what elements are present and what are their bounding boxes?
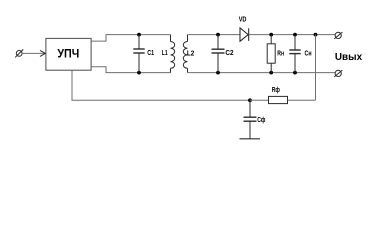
node C2 top [216, 33, 220, 37]
svg-text:УПЧ: УПЧ [57, 47, 79, 61]
svg-text:C1: C1 [147, 50, 154, 57]
svg-text:Uвых: Uвых [335, 51, 362, 63]
wire secondary top rail [188, 34, 241, 36]
node C1 top [137, 33, 141, 37]
node Cf junction [248, 98, 252, 102]
block U1 УПЧ [46, 38, 91, 70]
node C1 bottom [137, 71, 141, 75]
wire box top stub to tank [91, 35, 170, 42]
wire block bottom pin and lower rail [72, 70, 250, 100]
wire vertical feed to Rf [315, 35, 317, 101]
wire secondary bottom rail to output [188, 72, 336, 74]
node Rn top [269, 33, 273, 37]
svg-text:Rф: Rф [272, 87, 280, 94]
wire input arrow shaft [22, 52, 45, 54]
wire box bottom stub to tank [91, 67, 170, 73]
capacitor Cn [289, 35, 300, 73]
node C2 bottom [216, 71, 220, 75]
svg-text:Cф: Cф [257, 117, 265, 124]
capacitor Cf [244, 100, 257, 139]
input terminal [15, 49, 23, 57]
wire diode cathode to output terminal [249, 34, 335, 36]
ground [240, 138, 261, 140]
resistor Rn [267, 35, 275, 73]
node Cn top [293, 33, 297, 37]
wire Rf to vertical feed [288, 99, 316, 101]
node Rn bottom [269, 71, 273, 75]
svg-text:C2: C2 [225, 50, 233, 57]
node feed top [314, 33, 318, 37]
output terminal bottom [334, 70, 342, 77]
arrowhead [40, 50, 45, 56]
svg-text:Rн: Rн [277, 51, 284, 58]
svg-text:Cн: Cн [305, 51, 312, 58]
svg-text:VD: VD [239, 16, 247, 23]
capacitor C2 [212, 35, 225, 73]
output terminal top [334, 32, 342, 39]
inductor L1 [171, 35, 175, 73]
wire junction to Rf [250, 99, 269, 101]
resistor Rf [269, 96, 288, 103]
svg-text:L2: L2 [187, 51, 194, 58]
diode VD [240, 28, 249, 41]
inductor L2 [183, 35, 187, 73]
capacitor C1 [133, 35, 144, 73]
node Cn bottom [293, 71, 297, 75]
svg-text:L1: L1 [162, 50, 168, 57]
